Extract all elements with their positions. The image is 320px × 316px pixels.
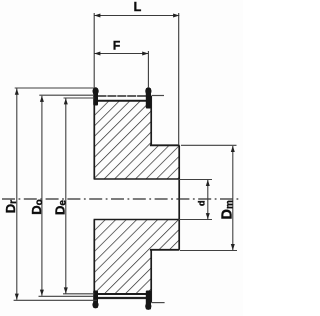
centerline axis: [2, 198, 240, 200]
dimension Dm (hub): [180, 145, 237, 250]
flange upper-right: [145, 87, 151, 108]
stub line right of upper flange: [151, 95, 164, 97]
bore top line: [94, 178, 179, 180]
tooth tip line upper (teeth band): [98, 95, 147, 97]
tooth root line upper: [94, 100, 152, 102]
dimension Do: [39, 95, 95, 296]
dimension L: [94, 13, 179, 145]
hatched rim/web cross-section upper: [94, 101, 179, 179]
flange lower-left: [92, 291, 98, 309]
svg-text:Do: Do: [29, 199, 45, 215]
hatched rim/web cross-section lower: [94, 220, 179, 295]
svg-text:Dm: Dm: [220, 200, 236, 219]
flange upper-left: [93, 87, 99, 105]
dimension F: [94, 51, 148, 88]
bore bottom line: [94, 219, 179, 221]
rim right face lower: [150, 250, 152, 303]
tooth tip line lower: [98, 297, 147, 299]
hub right end face: [178, 145, 180, 250]
tooth root line lower: [94, 293, 152, 295]
svg-text:De: De: [53, 200, 69, 215]
hub bottom line: [150, 249, 180, 251]
rim right face upper: [150, 96, 152, 145]
svg-text:L: L: [134, 0, 142, 14]
flange lower-right: [145, 291, 151, 310]
svg-text:F: F: [113, 39, 120, 53]
dimension De: [63, 98, 94, 294]
dimension Dr: [14, 88, 97, 300]
pulley left face line: [93, 95, 95, 302]
svg-text:d: d: [197, 201, 207, 207]
stub line right of lower flange: [151, 302, 164, 304]
dimension d (bore): [179, 180, 212, 220]
svg-text:Dr: Dr: [3, 200, 19, 213]
hub top line: [150, 144, 180, 146]
